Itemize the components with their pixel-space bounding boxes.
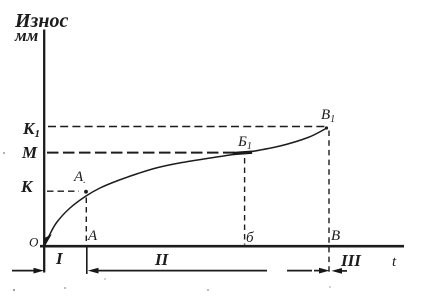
svg-text:К1: К1 [22,119,40,140]
y-axis [43,30,45,273]
svg-text:В: В [331,228,340,244]
dashed level line K1 [48,126,327,128]
svg-text:б: б [246,230,254,246]
svg-text:Б1: Б1 [237,134,252,152]
dashed drop line from Б1 to Б [244,158,246,245]
dashed level line M [47,152,238,154]
x-axis (t axis) [40,245,404,248]
point A1 dot [84,190,88,194]
wear curve [45,129,327,246]
scan specks [3,152,5,154]
svg-text:К: К [20,177,34,196]
svg-text:II: II [154,250,170,269]
region III arrow pointing left to В tick [332,268,343,274]
svg-text:А: А [87,228,98,244]
dashed drop line from В1 through axis [328,131,330,273]
thick mark at point Б1 [233,152,252,153]
dashed level line K [47,190,79,192]
tick below axis at A [86,247,88,274]
dashed drop line from A1 to A [85,198,87,245]
svg-text:III: III [340,251,362,270]
svg-text:А.: А. [73,169,86,186]
svg-text:мм: мм [14,26,39,45]
svg-text:М: М [21,143,38,162]
svg-text:t: t [392,254,397,270]
svg-text:I: I [55,249,64,268]
region II dimension line with outward arrows [88,268,99,274]
arrowhead at curve start pointing to origin O [44,234,52,246]
svg-text:В1: В1 [321,107,335,125]
svg-text:О: О [29,235,39,250]
dimension line left arrow pointing right to y-axis tick [12,270,35,272]
point В1 tick [325,126,328,129]
